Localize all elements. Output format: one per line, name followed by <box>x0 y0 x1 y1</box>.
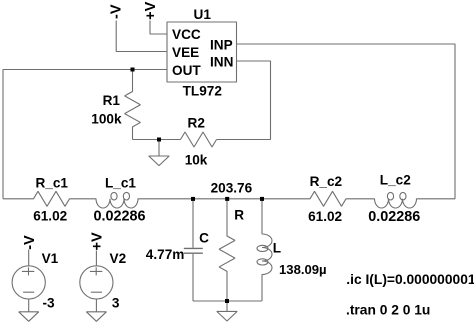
svg-text:R2: R2 <box>188 116 206 131</box>
svg-text:.tran 0 2 0 1u: .tran 0 2 0 1u <box>346 303 430 318</box>
svg-text:3: 3 <box>112 296 120 311</box>
svg-text:U1: U1 <box>194 7 212 22</box>
svg-text:0.02286: 0.02286 <box>368 209 420 225</box>
svg-text:203.76: 203.76 <box>211 180 253 195</box>
svg-text:L: L <box>273 240 281 255</box>
svg-text:138.09µ: 138.09µ <box>279 262 327 277</box>
svg-text:INN: INN <box>210 54 233 69</box>
svg-text:V1: V1 <box>42 251 59 266</box>
svg-text:100k: 100k <box>91 111 122 126</box>
svg-text:L_c1: L_c1 <box>105 175 136 190</box>
svg-text:+V: +V <box>90 232 106 250</box>
svg-text:R1: R1 <box>103 93 121 108</box>
svg-text:-3: -3 <box>43 295 56 310</box>
svg-text:VCC: VCC <box>172 27 201 42</box>
svg-text:INP: INP <box>210 37 233 52</box>
svg-text:R_c1: R_c1 <box>36 175 69 190</box>
svg-text:0.02286: 0.02286 <box>94 209 146 225</box>
svg-text:TL972: TL972 <box>183 83 223 98</box>
svg-text:-V: -V <box>22 235 38 250</box>
svg-text:+V: +V <box>143 1 159 19</box>
svg-text:VEE: VEE <box>172 45 199 60</box>
svg-text:10k: 10k <box>185 152 208 167</box>
svg-text:R_c2: R_c2 <box>310 174 343 189</box>
svg-text:OUT: OUT <box>172 63 201 78</box>
svg-text:C: C <box>199 230 209 245</box>
svg-text:4.77m: 4.77m <box>146 247 185 262</box>
svg-text:V2: V2 <box>110 251 127 266</box>
svg-text:-V: -V <box>109 4 125 19</box>
svg-text:.ic I(L)=0.000000001: .ic I(L)=0.000000001 <box>346 272 474 287</box>
svg-text:L_c2: L_c2 <box>380 172 411 187</box>
svg-text:61.02: 61.02 <box>308 209 342 224</box>
svg-text:61.02: 61.02 <box>33 208 67 223</box>
svg-text:R: R <box>234 207 244 222</box>
